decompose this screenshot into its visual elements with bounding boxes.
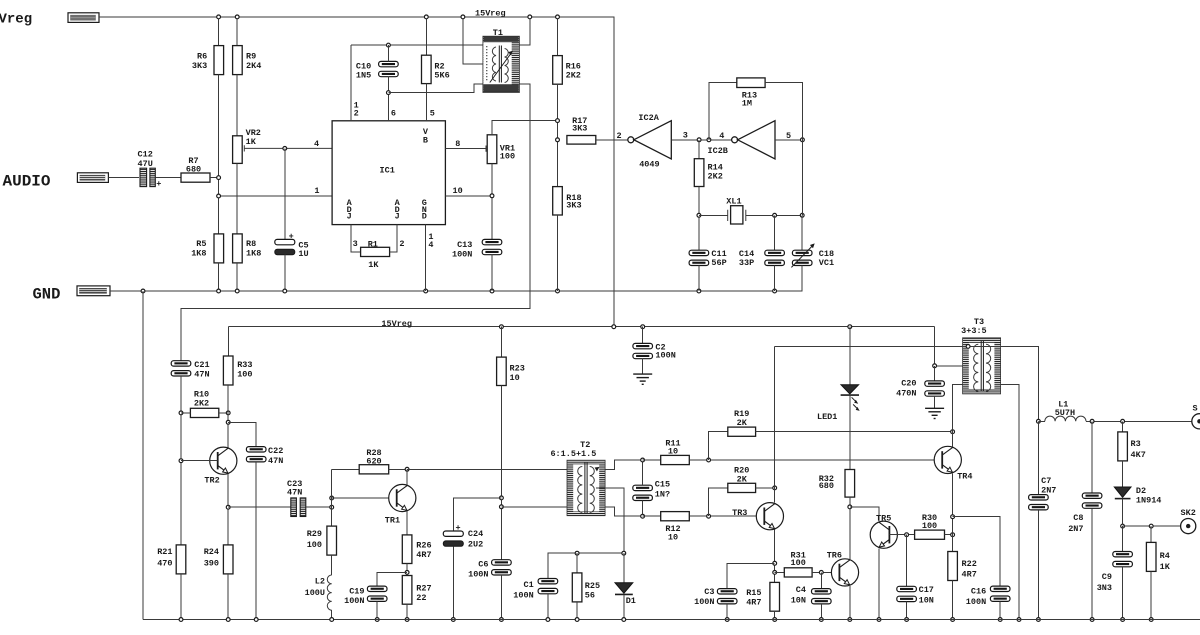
junction R12 R20 node (707, 514, 711, 518)
junction rail R16 (556, 15, 560, 19)
svg-text:R4: R4 (1160, 551, 1170, 561)
svg-text:2K2: 2K2 (194, 399, 209, 409)
junction bottom rail C22 (254, 618, 258, 622)
junction rail T3 sec (1017, 618, 1021, 622)
svg-text:4R7: 4R7 (416, 550, 431, 560)
svg-text:1N?: 1N? (655, 489, 670, 499)
junction R19 TR4 collector (951, 430, 955, 434)
wire TR5 base to R30 (889, 534, 914, 536)
svg-text:56: 56 (585, 590, 595, 600)
resistor R10 (190, 408, 218, 417)
wire R6 branch (218, 17, 220, 46)
Vreg supply connector (68, 13, 99, 23)
svg-text:100N: 100N (966, 597, 986, 607)
svg-text:1N914: 1N914 (1136, 495, 1162, 505)
wire R10 right (219, 412, 228, 414)
wire R31 left (775, 571, 785, 573)
svg-text:100N: 100N (655, 351, 675, 361)
wire C16 to rail (999, 601, 1001, 619)
wire pin8 to VR1 (445, 148, 486, 150)
svg-text:100: 100 (500, 151, 515, 161)
wire pin5 node down (801, 140, 803, 216)
junction R14 node (697, 138, 701, 142)
svg-text:R15: R15 (746, 588, 761, 598)
wire TR3 collector to T3 (774, 346, 776, 502)
wire C15 bottom (642, 501, 644, 517)
wire C15 to R11 (643, 459, 661, 461)
wire T2 centre tap (596, 488, 624, 553)
junction rail C17 (905, 618, 909, 622)
wire TR2 base (181, 460, 218, 462)
junction rail T1 left (461, 15, 465, 19)
wire TR1 emitter to R26 (406, 511, 408, 535)
svg-text:1K8: 1K8 (246, 249, 261, 259)
socket SK1 (1192, 414, 1200, 429)
junction GND rail GND left drop (141, 289, 145, 293)
transistor TR4 (934, 446, 961, 473)
transistor TR2 (210, 447, 237, 474)
wire R24 to rail (227, 574, 229, 620)
svg-text:+: + (289, 232, 294, 242)
resistor R1 (361, 247, 390, 256)
wire 15Vreg bottom rail (228, 326, 934, 328)
wire TR6 emitter (849, 586, 851, 620)
wire C7 to rail (1037, 510, 1039, 620)
capacitor C19 100N (367, 586, 387, 601)
capacitor C23 47N (291, 498, 306, 517)
wire C15 top (642, 460, 644, 485)
wire C18 top leg (801, 215, 803, 250)
junction rail R2 (424, 15, 428, 19)
resistor R26 (402, 535, 412, 564)
capacitor C15 (633, 485, 653, 500)
svg-text:2K: 2K (737, 475, 748, 485)
svg-text:3: 3 (683, 130, 688, 140)
capacitor C3 100N (717, 589, 737, 604)
wire R32 to node (849, 497, 851, 507)
wire T3 line A (775, 346, 1039, 421)
wire D1 leg (623, 553, 625, 583)
wire R13 right leg (765, 83, 802, 140)
diode D1 (615, 583, 633, 593)
capacitor C24 2U2 electrolytic (443, 531, 463, 546)
resistor R19 (728, 427, 756, 436)
junction R26 R27 C19 (405, 571, 409, 575)
resistor R21 (176, 545, 186, 574)
svg-text:L2: L2 (315, 577, 325, 587)
wire R27 to rail (406, 604, 408, 619)
capacitor C20 470N (925, 381, 945, 396)
junction C18 top (800, 213, 804, 217)
capacitor C13 100N (482, 239, 502, 254)
junction GND rail C5 (283, 289, 287, 293)
svg-text:T1: T1 (493, 28, 503, 38)
junction rail C3 (725, 618, 729, 622)
svg-text:GND: GND (33, 286, 61, 304)
junction rail C2 (641, 325, 645, 329)
wire IC1 pins 1-2 top (350, 45, 352, 121)
svg-text:2: 2 (399, 239, 404, 249)
svg-text:15Vreg: 15Vreg (381, 319, 412, 329)
capacitor C10 1N5 (379, 61, 399, 76)
svg-text:56P: 56P (711, 258, 726, 268)
svg-text:1: 1 (314, 186, 319, 196)
resistor R17 (567, 136, 596, 145)
svg-text:2: 2 (617, 131, 622, 141)
wire R20 left leg (709, 488, 728, 516)
wire R20 right (756, 487, 775, 489)
svg-text:Vreg: Vreg (0, 12, 32, 28)
wire R9 to VR2 (236, 75, 238, 136)
svg-text:TR5: TR5 (876, 513, 891, 523)
junction GND rail R8 (235, 289, 239, 293)
wire R21 to rail (180, 574, 182, 620)
svg-text:1U: 1U (298, 249, 308, 259)
svg-text:XL1: XL1 (726, 197, 741, 207)
svg-text:10N: 10N (919, 596, 934, 606)
resistor R5 (214, 234, 224, 263)
resistor R7 (181, 173, 210, 182)
junction C22 branch (226, 420, 230, 424)
wire C17 leg (906, 535, 908, 587)
wire R15 to rail (774, 611, 776, 619)
svg-text:4K7: 4K7 (1131, 450, 1146, 460)
wire pin14 to GND (425, 225, 427, 291)
junction R4 node (1149, 524, 1153, 528)
wire TR4 collector to T3 (953, 385, 963, 447)
svg-text:3N3: 3N3 (1097, 583, 1112, 593)
LED1 diode (841, 385, 859, 394)
junction R32 TR5 TR6 (848, 505, 852, 509)
svg-text:C24: C24 (468, 529, 483, 539)
svg-text:TR1: TR1 (385, 516, 400, 526)
wire XL1 row (699, 214, 728, 216)
svg-text:3K3: 3K3 (572, 123, 587, 133)
wire R18 to GND (557, 215, 559, 291)
junction bottom rail R21 (179, 618, 183, 622)
VR2 wiper (244, 145, 332, 151)
wire R5 to GND (218, 263, 220, 291)
svg-text:IC1: IC1 (380, 165, 395, 175)
svg-text:D1: D1 (626, 596, 636, 606)
svg-text:C21: C21 (194, 360, 209, 370)
transistor TR6 (831, 559, 858, 586)
wire R4 leg (1150, 526, 1152, 542)
junction R7 R6 (217, 176, 221, 180)
crystal XL1 (728, 210, 746, 221)
svg-text:22: 22 (416, 593, 426, 603)
resistor R4 (1146, 542, 1156, 571)
svg-text:S: S (1193, 404, 1198, 414)
wire IC2B in pin5 (775, 139, 802, 141)
junction R31 C4 TR6 base (819, 571, 823, 575)
svg-text:IC2A: IC2A (638, 113, 659, 123)
svg-text:1N5: 1N5 (356, 71, 371, 81)
junction rail TR5 (877, 618, 881, 622)
junction rail C19 (375, 618, 379, 622)
wire R12 right to TR3 base (689, 515, 764, 517)
capacitor C14 33P (765, 250, 785, 265)
capacitor C16 100N (990, 586, 1010, 601)
junction R10 left (179, 411, 183, 415)
svg-text:B: B (423, 136, 428, 146)
junction TR3 emitter C3 (773, 561, 777, 565)
junction R3 node (1121, 419, 1125, 423)
svg-text:C9: C9 (1102, 572, 1112, 582)
junction pin5 node (801, 138, 805, 142)
ground C20 (925, 408, 944, 418)
junction rail C8 (1090, 618, 1094, 622)
wire R19 left leg (709, 432, 728, 460)
resistor R3 (1118, 432, 1128, 461)
wire bottom T1 link (388, 84, 483, 93)
wire R23 to C6 (500, 386, 502, 560)
capacitor C17 10N (897, 586, 917, 601)
wire R3 to D2 (1122, 461, 1124, 487)
svg-text:C8: C8 (1073, 513, 1083, 523)
svg-text:15Vreg: 15Vreg (475, 9, 506, 19)
svg-text:1K: 1K (368, 260, 379, 270)
wire R26 to node (406, 564, 408, 576)
junction rail D1 (622, 618, 626, 622)
inductor L2 100U (327, 575, 331, 610)
resistor R31 (784, 568, 812, 577)
junction T2 prim bottom (500, 505, 504, 509)
junction rail C9 (1121, 618, 1125, 622)
svg-text:C6: C6 (478, 559, 488, 569)
wire node to R14 (698, 140, 700, 159)
junction C24 node (500, 496, 504, 500)
capacitor C2 100N (633, 343, 653, 358)
svg-text:R21: R21 (157, 547, 172, 557)
capacitor C21 47N (171, 361, 191, 376)
wire C18 bottom to GND rail (801, 266, 803, 292)
wire C19 to rail (376, 601, 378, 619)
junction bottom rail L2 (330, 618, 334, 622)
svg-text:100: 100 (307, 540, 322, 550)
junction D2 SK2 node (1121, 524, 1125, 528)
wire C1 to rail (547, 594, 549, 620)
svg-text:680: 680 (186, 165, 201, 175)
junction C10 top (387, 43, 391, 47)
transistor TR5 (870, 521, 897, 548)
wire T1 right top to rail (519, 17, 529, 45)
wire emitter to C23 (228, 506, 290, 508)
transformer T3 (963, 338, 1001, 394)
wire R10 left (181, 412, 190, 414)
svg-text:C22: C22 (268, 446, 283, 456)
junction C17 node (905, 533, 909, 537)
junction XL1 left (697, 213, 701, 217)
wire C10 bottom pin6 (387, 77, 389, 121)
wire R13 left leg (709, 83, 737, 140)
junction rail C1 (546, 618, 550, 622)
wire TR4 emitter (952, 474, 954, 552)
svg-text:C4: C4 (796, 585, 806, 595)
svg-text:2K2: 2K2 (566, 71, 581, 81)
wire bottom ground rail (143, 619, 1200, 621)
junction rail R27 (405, 618, 409, 622)
wire TR1 collector (406, 469, 408, 485)
svg-text:TR4: TR4 (957, 472, 972, 482)
svg-text:2N7: 2N7 (1068, 524, 1083, 534)
resistor R28 (359, 465, 389, 474)
junction rail C4 (819, 618, 823, 622)
svg-text:680: 680 (819, 481, 834, 491)
wire C20 leg (934, 366, 936, 381)
wire rail to R16 (557, 17, 559, 56)
wire T1 right bottom long run (181, 84, 530, 361)
svg-text:100: 100 (237, 370, 252, 380)
junction C10 bottom (387, 91, 391, 95)
resistor R14 (694, 159, 704, 187)
capacitor C8 2N7 (1082, 493, 1102, 508)
wire pin10 (445, 195, 492, 197)
resistor R24 (223, 545, 233, 574)
ground C2 (633, 374, 652, 384)
svg-text:3K3: 3K3 (192, 61, 207, 71)
wire R9 branch (236, 17, 238, 46)
svg-text:R3: R3 (1131, 439, 1141, 449)
wire R14 to XL1 node (698, 187, 700, 251)
svg-text:4049: 4049 (639, 160, 659, 170)
svg-text:47N: 47N (287, 488, 302, 498)
wire C5 to GND rail (284, 255, 286, 291)
junction rail C7 (1037, 618, 1041, 622)
wire R25 leg (576, 553, 578, 573)
svg-text:6: 6 (391, 109, 396, 119)
wire R8 to GND (236, 263, 238, 291)
potentiometer VR1 (487, 135, 497, 164)
junction GND rail R18 (556, 289, 560, 293)
wire C7 leg (1037, 421, 1039, 494)
capacitor C11 56P (689, 250, 709, 265)
junction C23 node (330, 505, 334, 509)
VR1 wiper tick (485, 146, 487, 152)
resistor R20 (728, 483, 756, 492)
wire R19 right (756, 431, 953, 433)
svg-text:10: 10 (668, 533, 678, 543)
svg-text:C15: C15 (655, 480, 670, 490)
junction rail R4 (1149, 618, 1153, 622)
wire R16 to nodes (557, 84, 559, 186)
svg-text:100: 100 (791, 558, 806, 568)
wire L2 to rail (331, 610, 333, 619)
svg-text:8: 8 (455, 139, 460, 149)
svg-text:5: 5 (430, 109, 435, 119)
svg-text:3: 3 (353, 239, 358, 249)
capacitor C12 47U electrolytic (140, 168, 161, 189)
junction GND rail C13 (490, 289, 494, 293)
junction C15 bottom (641, 514, 645, 518)
svg-text:1K8: 1K8 (191, 249, 206, 259)
resistor R16 (553, 56, 563, 85)
wire C14 to GND (774, 266, 776, 292)
wire C21 to base node (180, 376, 182, 545)
wire rail to R23 (500, 327, 502, 357)
wire T2 line B (501, 507, 642, 516)
wire L1 to SK1 (1086, 420, 1192, 422)
transistor TR3 (756, 503, 783, 530)
junction rail TR6 (848, 618, 852, 622)
wire R33 to TR2 collector (227, 385, 229, 448)
svg-text:390: 390 (204, 559, 219, 569)
wire C11 to GND (698, 266, 700, 292)
wire top supply rail (99, 17, 614, 327)
junction R11 R19 node (707, 458, 711, 462)
capacitor C5 1U electrolytic (275, 239, 295, 254)
wire C24 to rail (452, 546, 454, 619)
junction C8 node (1090, 419, 1094, 423)
wire R31 right (812, 571, 839, 573)
svg-text:R26: R26 (416, 541, 431, 551)
svg-text:6:1.5+1.5: 6:1.5+1.5 (550, 449, 596, 459)
svg-text:10: 10 (510, 373, 520, 383)
op-amp IC1 package (332, 121, 445, 225)
wire C15 to R12 (643, 515, 661, 517)
wire LED1 anode (849, 327, 851, 385)
wire C16 branch (953, 517, 1001, 586)
wire R6 to R5 (218, 75, 220, 234)
capacitor C4 10N (812, 589, 832, 604)
svg-text:LED1: LED1 (817, 412, 837, 422)
wire C12 to R7 (155, 177, 181, 179)
svg-text:100N: 100N (694, 597, 714, 607)
wire C3 branch (727, 563, 775, 588)
svg-text:J: J (347, 212, 352, 222)
wire T1 primary bottom-left feed (463, 17, 483, 64)
svg-text:100N: 100N (344, 596, 364, 606)
resistor R2 (422, 55, 432, 83)
wire C1 riser (548, 553, 624, 578)
GND connector (77, 286, 110, 296)
wire R4 to rail (1150, 571, 1152, 619)
svg-text:TR3: TR3 (732, 508, 747, 518)
wire AUDIO to C12 (108, 177, 139, 179)
diode D2 1N914 (1114, 487, 1131, 497)
svg-text:47U: 47U (138, 159, 153, 169)
wire T3 centre tap (935, 327, 963, 366)
svg-text:+: + (156, 179, 161, 189)
C18 variable arrow (791, 246, 812, 268)
capacitor C7 2N7 (1029, 495, 1049, 510)
resistor R6 (214, 46, 224, 75)
wire LED1 to R32 (849, 395, 851, 469)
svg-text:C3: C3 (704, 587, 714, 597)
potentiometer VR2 (233, 136, 243, 164)
junction R25 top (575, 551, 579, 555)
junction VR1 pin10 (490, 194, 494, 198)
resistor R30 (915, 530, 945, 539)
junction R13 node (707, 138, 711, 142)
svg-text:R22: R22 (962, 559, 977, 569)
svg-text:2N7: 2N7 (1041, 485, 1056, 495)
wire R28 left leg (331, 469, 333, 526)
junction rail R23 (500, 325, 504, 329)
wire D1 to rail (623, 594, 625, 619)
wire TR6 collector (849, 507, 851, 559)
wire C20 to ground (934, 396, 936, 408)
resistor R15 (770, 582, 780, 611)
wire R30 right (945, 534, 953, 536)
svg-text:5: 5 (786, 131, 791, 141)
wire C9 to rail (1122, 567, 1124, 620)
wire C2 leg (642, 327, 644, 344)
junction rail C6 (500, 618, 504, 622)
wire TR2 emitter (227, 474, 229, 545)
svg-text:C17: C17 (919, 585, 934, 595)
wire C6 to rail (500, 575, 502, 620)
